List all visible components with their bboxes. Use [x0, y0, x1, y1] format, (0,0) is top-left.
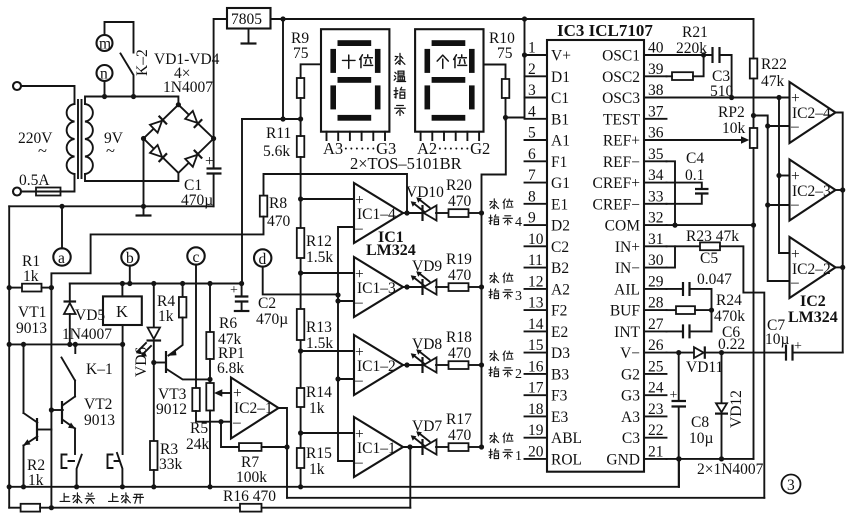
svg-text:27: 27	[648, 316, 664, 333]
wire contact 2 feed	[122, 344, 124, 454]
svg-text:1: 1	[515, 449, 522, 464]
pin 40 OSC1	[644, 54, 667, 56]
svg-text:36: 36	[648, 125, 664, 142]
fuse F1	[36, 188, 61, 196]
circle b	[121, 248, 138, 265]
svg-text:R8: R8	[269, 195, 287, 212]
capacitor C2	[241, 284, 243, 297]
svg-text:INT: INT	[614, 324, 640, 341]
svg-text:1.5k: 1.5k	[306, 335, 333, 352]
wire n stem	[104, 81, 106, 97]
op-amp IC1-1	[354, 417, 403, 477]
wire IC1-3 minus stub	[338, 300, 354, 302]
svg-text:D1: D1	[551, 69, 570, 86]
resistor R18	[449, 361, 469, 369]
svg-text:C2: C2	[258, 295, 276, 312]
svg-text:REF−: REF−	[603, 154, 640, 171]
svg-text:25: 25	[648, 358, 664, 375]
wire IN+ to R23	[667, 245, 701, 247]
svg-text:VD5: VD5	[75, 307, 105, 324]
wire b stem	[129, 266, 131, 284]
pin 34 CREF+	[644, 182, 667, 184]
svg-text:0.5A: 0.5A	[19, 172, 50, 189]
pin 22 C3	[644, 437, 667, 439]
svg-text:38: 38	[648, 82, 664, 99]
DS2 segment d	[432, 115, 466, 121]
node C3-OSC3	[729, 95, 734, 100]
svg-text:VD12: VD12	[728, 390, 745, 428]
svg-text:R24: R24	[716, 292, 742, 309]
svg-text:35: 35	[648, 146, 664, 163]
svg-text:D2: D2	[551, 218, 570, 235]
wire R22 top	[753, 19, 755, 59]
wire R9 top to display1	[301, 64, 321, 78]
svg-text:9012: 9012	[156, 401, 187, 418]
DS1 segment b	[375, 49, 381, 73]
svg-text:C3: C3	[622, 430, 640, 447]
svg-text:R21: R21	[682, 24, 708, 41]
resistor R15	[297, 448, 305, 468]
transformer T1 secondary winding	[85, 104, 93, 174]
rail ground upper	[9, 205, 213, 207]
capacitor C6	[683, 324, 690, 338]
wire IC1-2 plus input	[301, 350, 354, 352]
label shang shui guan	[60, 493, 70, 501]
resistor R11	[297, 136, 305, 157]
terminal input bottom	[13, 188, 21, 196]
svg-text:d: d	[259, 251, 267, 268]
wire C7 to output bus	[793, 352, 843, 354]
svg-text:470: 470	[448, 267, 472, 284]
svg-text:VD10: VD10	[406, 184, 444, 201]
wire IC1-1 out down to R16 line	[409, 447, 411, 508]
svg-text:IN−: IN−	[615, 260, 640, 277]
op-amp IC1-3	[354, 257, 403, 317]
pin 15 D3	[525, 352, 548, 354]
node K top	[120, 281, 125, 286]
pin 2 D1	[525, 75, 548, 77]
svg-text:LM324: LM324	[788, 309, 838, 326]
wire R17 to bus	[469, 446, 482, 448]
svg-text:C1: C1	[551, 90, 569, 107]
svg-text:17: 17	[528, 380, 544, 397]
node R3 rail	[151, 484, 156, 489]
node VD12 gnd	[719, 456, 724, 461]
label water level 3	[490, 273, 499, 283]
svg-text:100k: 100k	[236, 469, 267, 486]
wire R9 bottom	[300, 98, 302, 119]
svg-text:5.6k: 5.6k	[263, 143, 290, 160]
wire led bus jog	[482, 118, 506, 448]
op-amp IC1-2	[354, 335, 403, 395]
svg-text:IC2–4: IC2–4	[792, 105, 831, 122]
pin 6 F1	[525, 160, 548, 162]
svg-text:IC1–2: IC1–2	[357, 358, 396, 375]
resistor R13	[297, 309, 305, 340]
svg-text:IC3 ICL7107: IC3 ICL7107	[557, 21, 653, 40]
node line b-c-d	[70, 283, 242, 285]
svg-text:K: K	[116, 302, 128, 321]
svg-text:3: 3	[515, 289, 522, 304]
wire RP2 node to minus bus	[754, 116, 790, 282]
svg-text:1.5k: 1.5k	[306, 249, 333, 266]
LED VD10	[407, 212, 422, 214]
wire R1 right	[42, 287, 52, 289]
DS1 segment d	[338, 115, 372, 121]
svg-text:75: 75	[293, 45, 309, 62]
svg-text:R20: R20	[446, 177, 472, 194]
svg-text:IC1–1: IC1–1	[357, 440, 396, 457]
node minus bus d	[335, 292, 340, 297]
svg-text:1k: 1k	[309, 400, 325, 417]
svg-text:32: 32	[648, 210, 664, 227]
svg-text:5: 5	[528, 125, 536, 142]
pin 4 B1	[525, 118, 548, 120]
wire VD11 to C7	[706, 352, 787, 354]
svg-text:2×TOS–5101BR: 2×TOS–5101BR	[350, 154, 462, 173]
svg-text:VD11: VD11	[686, 359, 723, 376]
wire VT1 collector	[23, 344, 25, 413]
wire IC2-2 out	[836, 266, 843, 268]
node minus R7	[218, 419, 223, 424]
svg-text:A1: A1	[551, 133, 570, 150]
wire R23 jog to input line	[720, 246, 764, 497]
wire R5 to minus	[196, 411, 231, 422]
pin 30 IN−	[644, 267, 667, 269]
wire base column	[50, 288, 52, 508]
svg-text:470µ: 470µ	[256, 311, 288, 328]
svg-text:C8: C8	[691, 414, 709, 431]
svg-text:B3: B3	[551, 366, 569, 383]
svg-text:11: 11	[528, 252, 543, 269]
wire fuse line	[21, 174, 75, 192]
ground symbol main	[143, 206, 145, 214]
circle a	[53, 248, 70, 265]
svg-text:24k: 24k	[186, 436, 210, 453]
svg-text:9: 9	[528, 210, 536, 227]
svg-text:R17: R17	[446, 411, 472, 428]
svg-text:+: +	[670, 388, 678, 403]
resistor R23	[700, 242, 720, 250]
svg-text:30: 30	[648, 252, 664, 269]
svg-text:G3: G3	[621, 388, 640, 405]
wire V- line	[667, 352, 694, 354]
wire +5V top rail	[271, 18, 754, 20]
node IC1-1 out	[407, 444, 412, 449]
node R4 top	[180, 281, 185, 286]
wire AIL to C5	[667, 288, 684, 290]
svg-text:470: 470	[448, 345, 472, 362]
svg-text:10k: 10k	[722, 120, 746, 137]
pin 7 G1	[525, 182, 548, 184]
wire ground rail	[9, 486, 679, 488]
svg-text:R15: R15	[306, 445, 332, 462]
svg-text:R16 470: R16 470	[223, 488, 276, 505]
svg-text:R22: R22	[761, 56, 787, 73]
svg-text:F2: F2	[551, 303, 567, 320]
wire IN- jog up	[667, 246, 676, 267]
op-amp IC2-1	[231, 378, 279, 439]
node a-rail	[59, 204, 64, 209]
wire R24 right	[695, 309, 712, 311]
svg-text:1k: 1k	[23, 268, 39, 285]
wire REF- to COM line	[667, 161, 676, 225]
diode bottom-right arm	[185, 150, 202, 167]
svg-text:m: m	[99, 36, 111, 53]
svg-text:6: 6	[528, 146, 536, 163]
wire R8 top to IC1-4 output line	[264, 174, 408, 213]
resistor R20	[449, 209, 469, 217]
diode top-left arm	[150, 116, 167, 133]
wire IC1-4 out	[403, 212, 407, 214]
wire GND pin line	[667, 458, 754, 460]
svg-text:19: 19	[528, 422, 544, 439]
svg-text:~: ~	[38, 141, 47, 160]
pin 32 COM	[644, 224, 667, 226]
svg-text:470: 470	[448, 427, 472, 444]
svg-text:3: 3	[528, 82, 536, 99]
svg-text:F3: F3	[551, 388, 568, 405]
svg-text:16: 16	[528, 358, 544, 375]
node contact1 rail	[74, 484, 79, 489]
svg-text:IC2–2: IC2–2	[792, 261, 831, 278]
svg-text:ABL: ABL	[551, 430, 582, 447]
wire bridge plus up to 7805	[214, 19, 227, 139]
node border R1	[7, 285, 12, 290]
resistor R14	[297, 388, 305, 407]
node feedback	[284, 444, 289, 449]
potentiometer RP1	[206, 383, 214, 411]
node +5v R10	[503, 115, 508, 120]
svg-text:1k: 1k	[309, 461, 325, 478]
pin 37 TEST	[644, 118, 667, 120]
pin 5 A1	[525, 139, 548, 141]
svg-text:1N4007: 1N4007	[62, 326, 112, 343]
wire +5v to pin1	[506, 19, 525, 118]
wire RP2 bottom to COM	[753, 148, 755, 459]
wire bottom R16 line	[9, 507, 20, 509]
node VD12 top	[719, 350, 724, 355]
wire divider chain	[300, 119, 302, 487]
wire IC1-4 plus input	[301, 198, 354, 200]
regulator U2 7805	[227, 8, 271, 29]
wire R7 to output	[262, 446, 288, 448]
svg-text:G2: G2	[621, 366, 640, 383]
resistor R16	[240, 504, 262, 512]
wire R20 to bus	[469, 212, 482, 214]
pin 11 B2	[525, 267, 548, 269]
potentiometer RP2	[750, 128, 758, 148]
svg-text:28: 28	[648, 295, 664, 312]
node R24-C5-C6	[709, 308, 714, 313]
wire minus down to R7	[221, 422, 239, 447]
capacitor C8	[678, 353, 680, 401]
resistor R17	[449, 443, 469, 451]
svg-text:BUF: BUF	[610, 303, 641, 320]
svg-text:R13: R13	[306, 319, 332, 336]
pin 14 E2	[525, 330, 548, 332]
svg-text:4: 4	[515, 215, 522, 230]
svg-text:R19: R19	[446, 251, 472, 268]
svg-text:IC2: IC2	[800, 293, 826, 310]
node K-2 bottom	[131, 94, 136, 99]
svg-text:K–2: K–2	[134, 49, 151, 76]
diode bottom-left arm	[150, 145, 167, 162]
svg-text:IC1–3: IC1–3	[357, 280, 396, 297]
DS2 segment b	[469, 49, 475, 73]
wire INT to C6	[667, 330, 684, 332]
wire R18 to bus	[469, 364, 482, 366]
svg-text:OSC1: OSC1	[602, 48, 640, 65]
svg-text:47k: 47k	[761, 73, 785, 90]
svg-text:1k: 1k	[158, 308, 174, 325]
svg-text:a: a	[58, 250, 65, 267]
circle d	[254, 249, 271, 266]
wire left border	[8, 206, 10, 507]
wire IC1-3 plus input	[301, 272, 354, 274]
node 7805 out	[280, 16, 285, 21]
node VD6 top	[151, 281, 156, 286]
pin 3 C1	[525, 97, 548, 99]
DS2 segment c	[469, 85, 475, 109]
node C8 top	[676, 350, 681, 355]
svg-text:37: 37	[648, 103, 664, 120]
wire m to switch	[105, 22, 134, 53]
svg-text:9013: 9013	[84, 412, 115, 429]
diode VD5	[69, 284, 71, 301]
wire R1 left	[9, 287, 22, 289]
switch K-1	[62, 344, 76, 380]
wire plus chain vertical	[779, 98, 790, 254]
label gewei ones digit	[437, 55, 448, 68]
svg-text:F1: F1	[551, 154, 567, 171]
label water temp indicator vertical	[395, 53, 405, 64]
pin 27 INT	[644, 330, 667, 332]
wire a to rail	[61, 206, 63, 248]
svg-text:20: 20	[528, 443, 544, 460]
svg-text:0.1: 0.1	[685, 167, 704, 184]
svg-text:B2: B2	[551, 260, 569, 277]
svg-text:14: 14	[528, 316, 544, 333]
wire R16 to IC1-1 out	[262, 507, 411, 509]
node b	[127, 281, 132, 286]
svg-text:26: 26	[648, 337, 664, 354]
op-amp IC2-4	[790, 82, 836, 143]
svg-text:IC2–3: IC2–3	[792, 183, 831, 200]
node R6 top	[207, 281, 212, 286]
wire OSC3 line to IC2-4 plus	[667, 97, 790, 99]
DS2 segment a	[432, 40, 466, 46]
svg-text:R18: R18	[446, 329, 472, 346]
relay coil K box	[103, 296, 142, 325]
node R1 base	[49, 285, 54, 290]
node bus row2	[479, 362, 484, 367]
resistor R6	[209, 284, 211, 333]
terminal n	[97, 65, 113, 81]
label water level 1	[490, 433, 499, 443]
display DS2 box	[415, 29, 483, 132]
svg-text:REF+: REF+	[603, 133, 640, 150]
svg-text:D3: D3	[551, 345, 570, 362]
node minus bus ic12	[335, 376, 340, 381]
wire VD12 stem	[721, 353, 723, 403]
node out ic22	[840, 265, 845, 270]
svg-text:ROL: ROL	[551, 451, 582, 468]
svg-text:IN+: IN+	[615, 239, 640, 256]
pin 18 E3	[525, 415, 548, 417]
wire VT2 collector to K-1	[74, 381, 76, 397]
DS1 segment c	[375, 85, 381, 109]
DS2 segment g	[432, 77, 466, 83]
resistor R8	[260, 196, 268, 217]
svg-text:R12: R12	[306, 233, 332, 250]
node IC1-3 out	[404, 284, 409, 289]
ground symbol 7805	[248, 29, 250, 43]
node RP2 top	[751, 113, 756, 118]
wire IC2-3 out	[836, 189, 843, 191]
capacitor C1	[213, 139, 215, 169]
wire K coil line	[9, 343, 122, 345]
transistor VT2	[61, 401, 63, 424]
relay contact 2 shang-shui-kai	[117, 453, 122, 487]
node VT3 collector	[207, 377, 212, 382]
svg-text:1N4007: 1N4007	[163, 79, 213, 96]
svg-text:75: 75	[497, 45, 513, 62]
DS2 pins	[421, 132, 480, 140]
svg-text:2: 2	[528, 61, 536, 78]
transformer T1 primary winding	[67, 104, 75, 174]
svg-text:8: 8	[528, 188, 536, 205]
svg-text:18: 18	[528, 401, 544, 418]
pin 10 C2	[525, 245, 548, 247]
circle c	[187, 247, 204, 264]
wire C6 right	[690, 330, 712, 332]
node divider tap4	[298, 196, 303, 201]
node C8 gnd	[676, 456, 681, 461]
pin 36 REF+	[644, 139, 667, 141]
figure number 3 circled	[782, 475, 801, 494]
pin 31 IN+	[644, 245, 667, 247]
op-amp IC2-2	[790, 237, 836, 298]
node pin1	[522, 52, 527, 57]
node minus chain ic23	[765, 202, 770, 207]
wire VD12 to GND	[721, 414, 723, 459]
diode VD12	[716, 403, 727, 412]
node R9 bottom	[298, 116, 303, 121]
wire 7805out down to +5V bus	[242, 19, 301, 119]
svg-text:470: 470	[448, 193, 472, 210]
node bus row3	[479, 284, 484, 289]
display DS1 box	[321, 29, 389, 132]
svg-text:34: 34	[648, 167, 664, 184]
svg-text:4: 4	[528, 103, 536, 120]
wire GND to ground rail	[678, 459, 680, 487]
DS2 segment f	[425, 49, 431, 73]
switch K-2	[121, 54, 134, 97]
svg-text:C5: C5	[700, 250, 718, 267]
svg-text:24: 24	[648, 380, 664, 397]
svg-text:VD9: VD9	[412, 258, 442, 275]
wire COM line	[667, 224, 754, 226]
svg-text:OSC3: OSC3	[602, 90, 640, 107]
node rail pin1 drop	[522, 16, 527, 21]
wire R22 bottom to RP2	[753, 79, 755, 129]
svg-text:12: 12	[528, 273, 544, 290]
node K-1 stem	[120, 342, 125, 347]
svg-text:K–1: K–1	[86, 361, 113, 378]
diode VD11	[694, 347, 704, 358]
wire IC2-1 output down	[279, 408, 288, 498]
